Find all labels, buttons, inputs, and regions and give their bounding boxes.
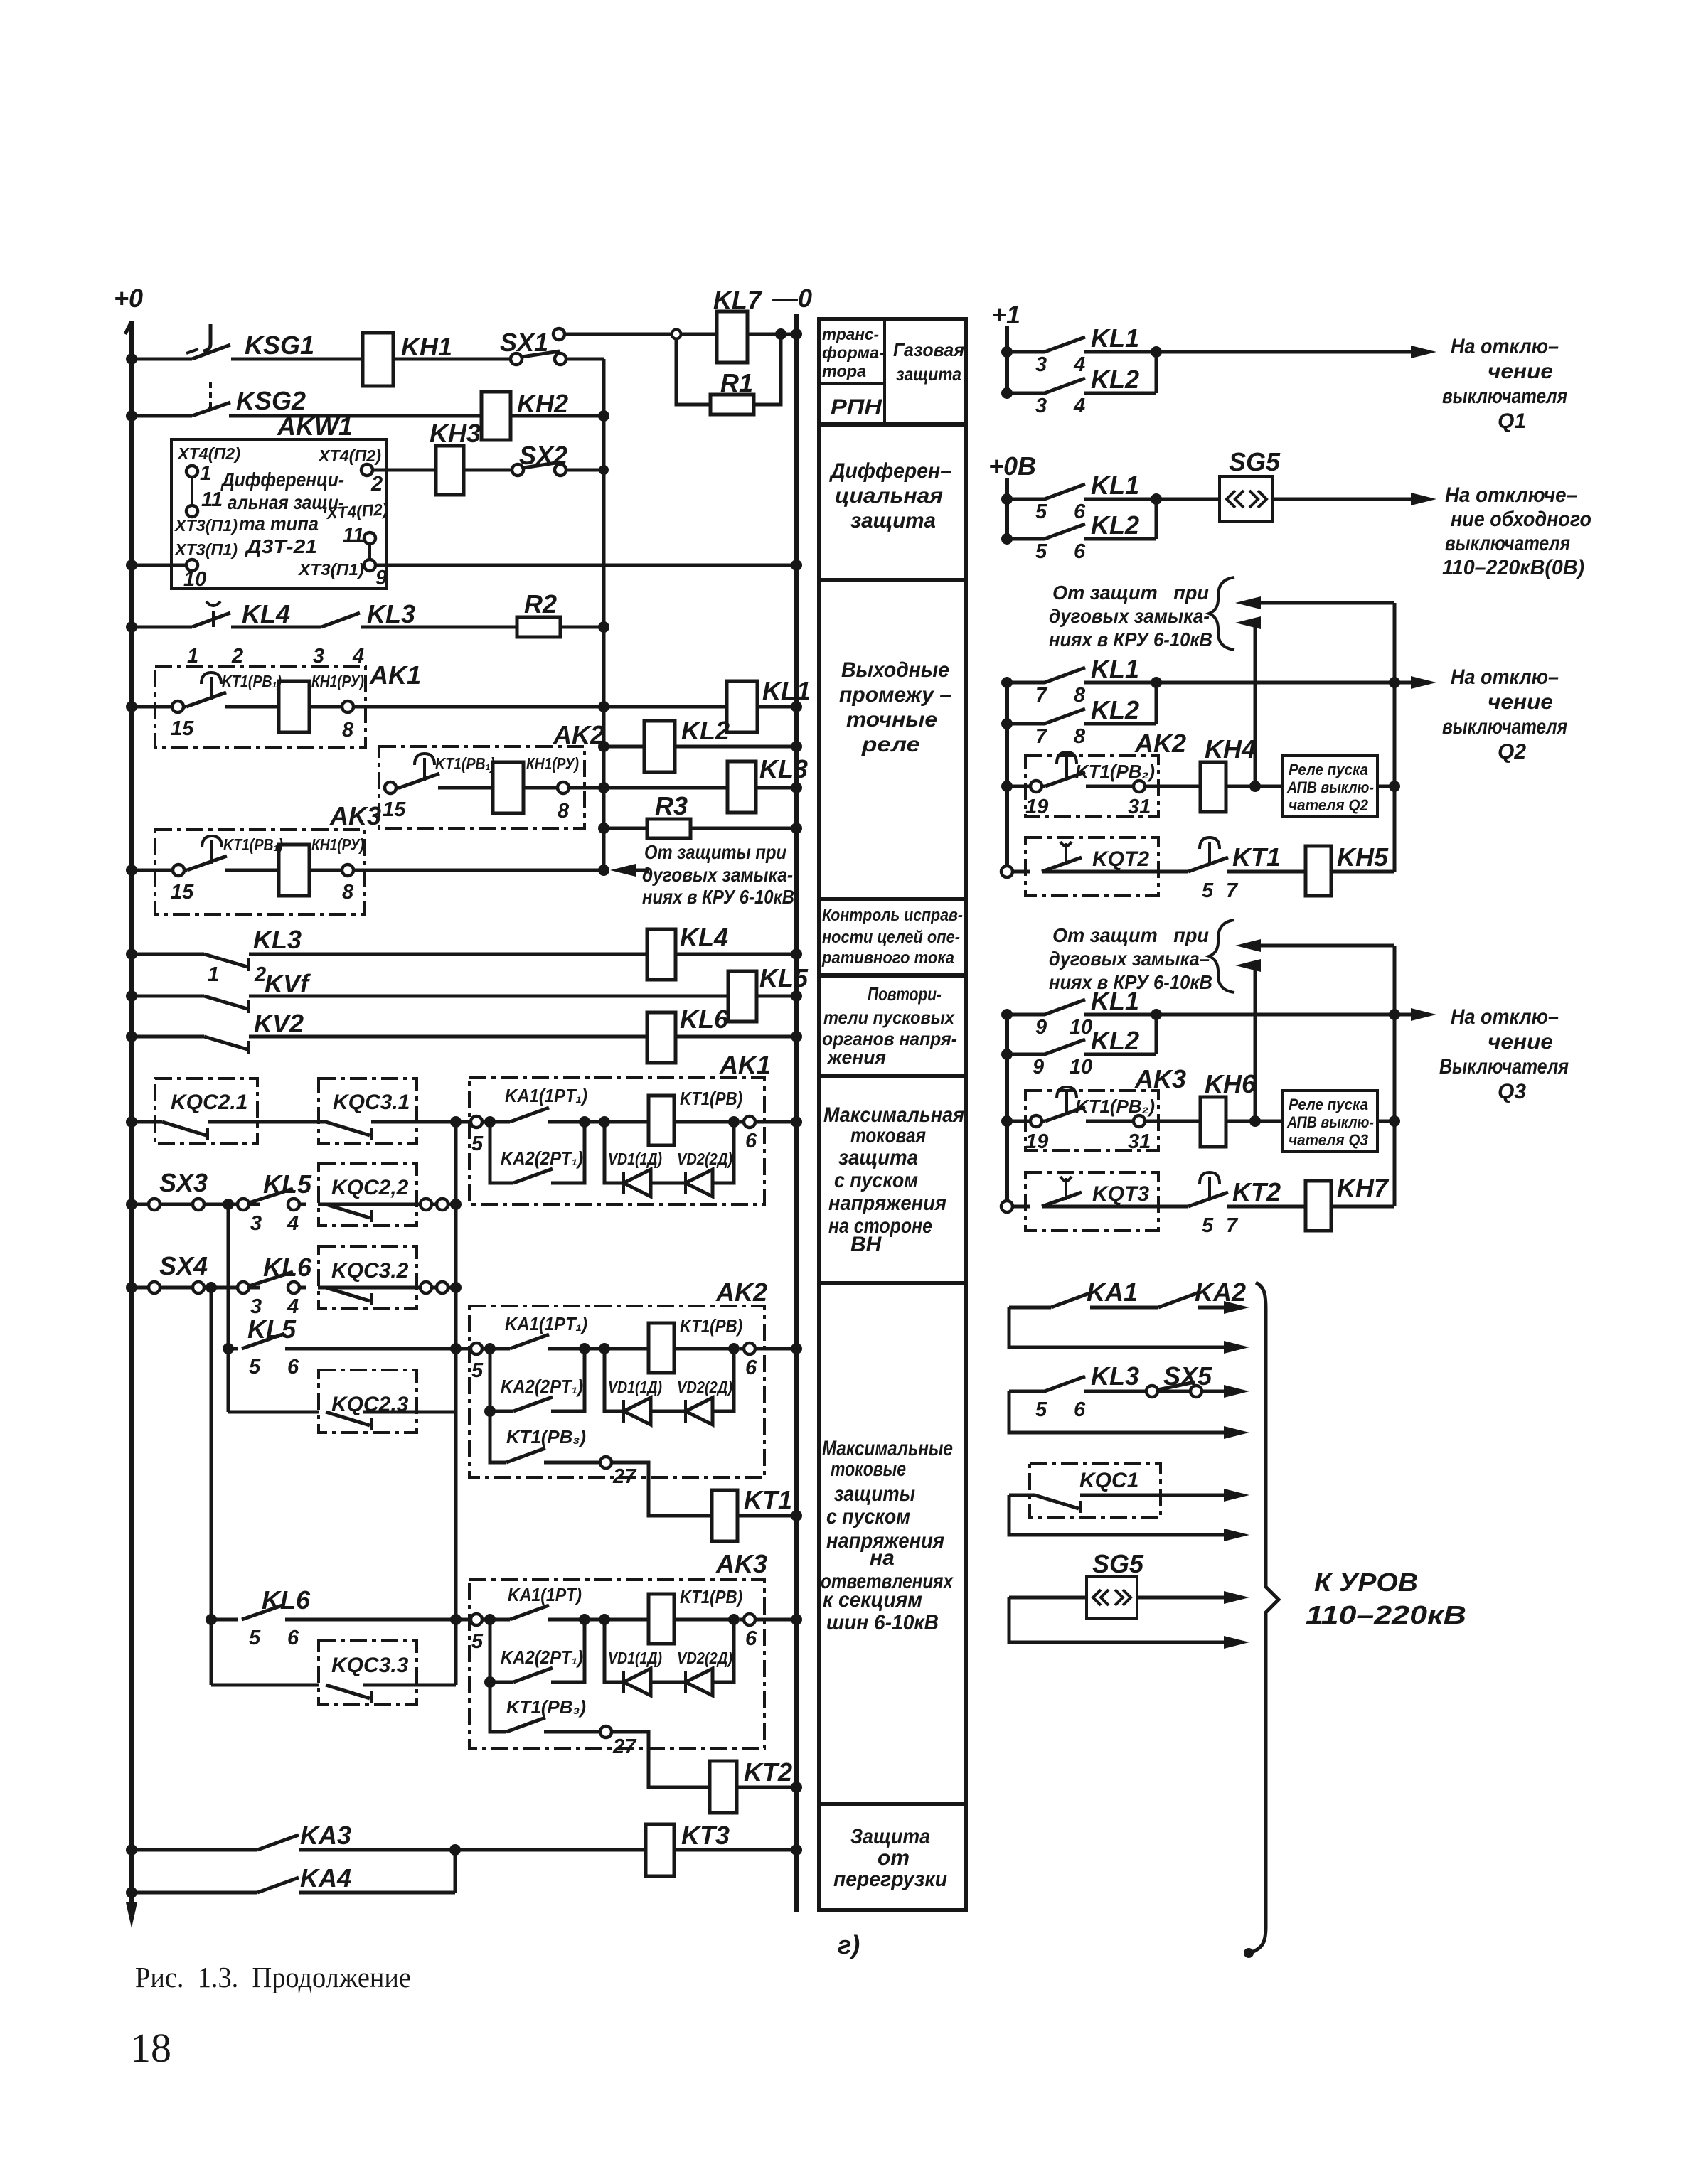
svg-text:VD1(1Д): VD1(1Д) bbox=[608, 1378, 662, 1396]
svg-text:ниях в КРУ 6-10кВ: ниях в КРУ 6-10кВ bbox=[1049, 628, 1212, 651]
wire AK3 MTZ out bbox=[755, 1618, 796, 1622]
svg-text:На отклю–: На отклю– bbox=[1451, 335, 1559, 358]
wire rung2 KSG2 y=585 bbox=[132, 414, 604, 418]
svg-text:защита: защита bbox=[838, 1146, 918, 1169]
svg-text:KT2: KT2 bbox=[744, 1757, 792, 1787]
pin 5 AK1 MTZ bbox=[471, 1116, 484, 1155]
svg-text:жения: жения bbox=[826, 1046, 886, 1068]
pin 11 right AKW1 bbox=[343, 524, 375, 547]
node junction AK3 rung/vertA end bbox=[598, 864, 609, 876]
svg-text:AK2: AK2 bbox=[1134, 729, 1186, 758]
node junction KT2/right bus bbox=[791, 1782, 802, 1793]
bracket UROV collector bbox=[1250, 1283, 1279, 1953]
svg-text:точные: точные bbox=[846, 708, 937, 732]
svg-text:АПВ выклю-: АПВ выклю- bbox=[1286, 1113, 1374, 1131]
svg-text:11: 11 bbox=[343, 524, 364, 547]
table row line 4 bbox=[819, 973, 966, 978]
wire KV1 rung y=1401 bbox=[132, 995, 796, 998]
svg-text:KH3: KH3 bbox=[430, 419, 481, 448]
node junction -0 bus top bbox=[791, 328, 802, 340]
svg-text:ниях в КРУ 6-10кВ: ниях в КРУ 6-10кВ bbox=[642, 886, 794, 908]
svg-text:реле: реле bbox=[861, 733, 920, 756]
pin 19 AK2 right bbox=[1025, 781, 1048, 818]
svg-text:1: 1 bbox=[187, 645, 198, 668]
svg-text:Дифферен–: Дифферен– bbox=[828, 459, 951, 483]
svg-text:KT1(PB): KT1(PB) bbox=[680, 1088, 742, 1109]
node junction diode branch split bbox=[599, 1116, 610, 1128]
node junction Q2 KL2/bus bbox=[1001, 718, 1013, 729]
diode VD2(2D) AK3 bbox=[686, 1669, 713, 1696]
svg-text:8: 8 bbox=[342, 719, 354, 742]
node junction KH4 out/vert inner bbox=[1249, 781, 1261, 792]
label cell kontrol bbox=[821, 906, 963, 968]
contact KL4 bbox=[192, 601, 230, 627]
svg-text:KT1(PB): KT1(PB) bbox=[680, 1315, 742, 1337]
pin 6 AK1 MTZ bbox=[740, 1116, 757, 1152]
svg-text:5: 5 bbox=[471, 1133, 484, 1155]
wire AK2 right rung y=1106 bbox=[1007, 785, 1394, 788]
node junction SX3 row/vertB bbox=[450, 1199, 462, 1210]
relay coil KT1(PB) AK3 bbox=[649, 1594, 674, 1644]
svg-text:110–220кВ: 110–220кВ bbox=[1306, 1600, 1466, 1629]
svg-text:5: 5 bbox=[1202, 1214, 1214, 1237]
svg-text:KL3: KL3 bbox=[367, 599, 415, 628]
wire AK1 MTZ out bbox=[755, 1120, 796, 1124]
device AK3 MTZ box bbox=[469, 1580, 764, 1748]
wire KL6 5-6 rung y=2278 bbox=[211, 1618, 506, 1622]
wire AK3 rung y=1224 bbox=[132, 869, 604, 872]
svg-text:На отклю–: На отклю– bbox=[1451, 665, 1559, 689]
node junction SX3/left bus bbox=[126, 1199, 137, 1210]
svg-text:KH2: KH2 bbox=[517, 389, 568, 418]
contact KL3 3-4 bbox=[321, 613, 360, 627]
svg-text:SX4: SX4 bbox=[159, 1251, 208, 1280]
relay coil KH3 bbox=[436, 446, 464, 495]
wire vert right inner Q2 x=1765 bbox=[1254, 623, 1257, 786]
svg-text:На отключе–: На отключе– bbox=[1445, 483, 1577, 507]
plug SX4 bbox=[149, 1282, 204, 1293]
svg-text:6: 6 bbox=[287, 1627, 299, 1649]
svg-text:ние обходного: ние обходного bbox=[1451, 508, 1591, 531]
node junction AK1 rung/left bus bbox=[126, 701, 137, 712]
svg-text:KQC3.2: KQC3.2 bbox=[331, 1259, 409, 1283]
relay coil KH1(RU) inside AK2 bbox=[493, 762, 523, 813]
svg-text:KA1(1PT₁): KA1(1PT₁) bbox=[505, 1313, 587, 1334]
svg-text:ративного тока: ративного тока bbox=[821, 948, 954, 968]
contact KT1(PB2) Q2 time contact bbox=[1045, 752, 1085, 786]
device AKW1 box bbox=[171, 439, 387, 589]
contact KT1(PB1) AK3 time contact bbox=[187, 836, 227, 870]
arrow Q3 trip output bbox=[1411, 1008, 1436, 1021]
device KQT2 box bbox=[1025, 837, 1158, 896]
svg-text:на: на bbox=[870, 1546, 895, 1570]
pin 27 AK2 bbox=[600, 1457, 637, 1488]
node junction KA3/left bus bbox=[126, 1844, 137, 1856]
wire Q3 KL2 rung y=1483 bbox=[1007, 1015, 1156, 1054]
svg-text:5: 5 bbox=[249, 1356, 261, 1379]
svg-text:Q2: Q2 bbox=[1498, 740, 1526, 764]
pin 15 AK3 bbox=[171, 864, 194, 904]
svg-text:+0B: +0B bbox=[988, 451, 1036, 481]
contact KA2(2PT1) AK2 bbox=[513, 1397, 553, 1411]
svg-text:дуговых замыка–: дуговых замыка– bbox=[1049, 948, 1210, 970]
arrow UROV 3 bbox=[1224, 1385, 1249, 1398]
svg-text:Контроль исправ-: Контроль исправ- bbox=[822, 906, 963, 925]
svg-text:Реле пуска: Реле пуска bbox=[1289, 1096, 1368, 1113]
arrow Q2 trip output bbox=[1411, 676, 1436, 689]
label cell differentsialnaya bbox=[828, 459, 951, 532]
wire Q1B KL2 rung y=758 bbox=[1007, 499, 1156, 539]
svg-text:KT1(PB₂): KT1(PB₂) bbox=[1075, 1096, 1155, 1117]
wire UROV loop 1 bbox=[1009, 1307, 1237, 1347]
wire KA4 rung y=2662 bbox=[132, 1850, 455, 1893]
wire UROV loop 2 bbox=[1009, 1391, 1237, 1433]
svg-text:+1: +1 bbox=[991, 300, 1020, 329]
svg-text:KH5: KH5 bbox=[1337, 842, 1389, 872]
svg-text:ности целей опе-: ности целей опе- bbox=[822, 928, 960, 947]
diode VD2(2D) AK1 bbox=[686, 1169, 713, 1197]
arrow UROV 5 bbox=[1224, 1489, 1249, 1501]
relay coil KT3 bbox=[646, 1824, 674, 1876]
pin 15 AK2 bbox=[383, 782, 406, 821]
arrow UROV 8 bbox=[1224, 1636, 1249, 1649]
node junction Q3 KL1/KL2 bbox=[1151, 1009, 1162, 1020]
table row line 2 bbox=[819, 578, 966, 582]
table row line 6 bbox=[819, 1281, 966, 1285]
arrow UROV 7 bbox=[1224, 1591, 1249, 1604]
svg-text:R2: R2 bbox=[524, 589, 557, 619]
pin 6 AK3 MTZ bbox=[740, 1614, 757, 1650]
symbol SG5 arrows bbox=[1227, 491, 1266, 508]
wire AKW1 row y=795 bbox=[132, 564, 796, 567]
arrow arc A lower bbox=[1235, 616, 1261, 629]
contact KL2 7-8 bbox=[1045, 709, 1085, 724]
svg-text:От защиты при: От защиты при bbox=[644, 841, 786, 863]
svg-text:KL4: KL4 bbox=[242, 599, 290, 628]
arrow UROV 2 bbox=[1224, 1341, 1249, 1354]
contact KT1(PB3) AK3 bbox=[490, 1682, 600, 1732]
node junction Q1 KL1/KL2 bbox=[1151, 346, 1162, 358]
svg-text:5: 5 bbox=[471, 1630, 484, 1653]
node junction KL2/right bus bbox=[791, 741, 802, 752]
diode VD1(1D) AK2 bbox=[624, 1398, 651, 1425]
node junction SX4/left bus bbox=[126, 1282, 137, 1293]
svg-text:От защит при: От защит при bbox=[1052, 924, 1209, 946]
pin 19 AK3 right bbox=[1025, 1115, 1048, 1153]
svg-text:KL2: KL2 bbox=[1091, 1026, 1139, 1055]
svg-text:AKW1: AKW1 bbox=[277, 412, 353, 441]
svg-text:—0: —0 bbox=[772, 284, 812, 313]
svg-text:SG5: SG5 bbox=[1229, 447, 1281, 476]
pin 15 AK1 bbox=[171, 701, 194, 740]
svg-text:КН1(РУ): КН1(РУ) bbox=[311, 835, 364, 854]
wire KA2 branch AK3 bbox=[490, 1620, 585, 1682]
svg-text:Q3: Q3 bbox=[1498, 1080, 1526, 1103]
svg-text:6: 6 bbox=[745, 1627, 757, 1650]
wire Q2 KL2 rung y=1018 bbox=[1007, 682, 1156, 724]
wire KT1 coil link AK2 bbox=[585, 1347, 649, 1351]
arrow arc B lower bbox=[1235, 959, 1261, 972]
table row line 7 bbox=[819, 1802, 966, 1806]
svg-text:KL5: KL5 bbox=[263, 1169, 312, 1199]
contact KQT2 bbox=[1042, 842, 1082, 872]
svg-text:Дифференци-: Дифференци- bbox=[220, 469, 344, 491]
contact KA1(1PT) AK3 bbox=[490, 1605, 585, 1620]
svg-text:Газовая: Газовая bbox=[893, 339, 964, 360]
svg-text:форма-: форма- bbox=[822, 343, 885, 362]
pin 9 AKW1 bbox=[364, 560, 387, 589]
arrow Q1B trip output bbox=[1411, 493, 1436, 505]
node junction SX3/vertC bbox=[223, 1199, 234, 1210]
svg-text:чателя Q2: чателя Q2 bbox=[1289, 796, 1369, 814]
plug SX5 bbox=[1146, 1386, 1202, 1397]
contact KL5 5-6 bbox=[242, 1334, 284, 1349]
device APV relay box Q2 bbox=[1283, 756, 1377, 817]
svg-text:1: 1 bbox=[200, 462, 211, 485]
contact KL6 3-4 bbox=[238, 1272, 299, 1293]
svg-text:чение: чение bbox=[1488, 360, 1553, 383]
wire +0B bus bbox=[1005, 478, 1009, 544]
svg-text:R1: R1 bbox=[720, 368, 753, 397]
svg-text:РПН: РПН bbox=[831, 395, 883, 419]
contact KA4 bbox=[257, 1878, 299, 1893]
relay coil KH1(RU) inside AK3 bbox=[279, 845, 309, 896]
wire KQC row y=1578 bbox=[132, 1120, 505, 1124]
svg-text:XT4(П2): XT4(П2) bbox=[317, 446, 381, 465]
pin 31 AK3 right bbox=[1128, 1115, 1151, 1153]
wire vertical C x=321 bbox=[227, 1204, 230, 1412]
svg-text:KA2: KA2 bbox=[1195, 1278, 1246, 1307]
node junction KV1/left bus bbox=[126, 990, 137, 1002]
node junction diode join AK3 bbox=[728, 1614, 740, 1625]
node junction Q1 KL1/bus bbox=[1001, 346, 1013, 358]
diode VD2(2D) AK2 bbox=[686, 1398, 713, 1425]
node junction KL3/right bus bbox=[791, 782, 802, 793]
device AK2 MTZ box bbox=[469, 1306, 764, 1477]
svg-text:KQC1: KQC1 bbox=[1079, 1469, 1138, 1492]
svg-text:от: от bbox=[878, 1846, 910, 1870]
svg-text:7: 7 bbox=[1035, 725, 1048, 748]
wire KV2 rung y=1458 bbox=[132, 1035, 796, 1039]
svg-text:9: 9 bbox=[1035, 1016, 1047, 1039]
svg-text:3: 3 bbox=[1035, 353, 1047, 376]
node junction Q1B KL2/bus bbox=[1001, 533, 1013, 545]
svg-text:VD2(2Д): VD2(2Д) bbox=[677, 1150, 732, 1168]
svg-text:К УРОВ: К УРОВ bbox=[1314, 1568, 1418, 1597]
wire Q2 bus segment bbox=[1005, 679, 1009, 872]
wire UROV loop 3 bbox=[1009, 1495, 1237, 1535]
node junction AK1 KA1/KA2 split bbox=[484, 1116, 496, 1128]
node junction KA1/KA2 join AK2 bbox=[579, 1343, 590, 1354]
node junction diode split AK3 bbox=[599, 1614, 610, 1625]
device KQC2.1 box bbox=[155, 1078, 257, 1144]
device APV relay box Q3 bbox=[1283, 1091, 1377, 1152]
node junction KT1/right bus bbox=[791, 1510, 802, 1521]
svg-text:KA1(1PT₁): KA1(1PT₁) bbox=[505, 1085, 587, 1106]
table header divider horizontal left bbox=[819, 382, 885, 385]
contact KT1(PB1) AK1 time contact bbox=[186, 673, 226, 707]
pin 8 AK3 bbox=[342, 864, 354, 904]
svg-text:Выходные: Выходные bbox=[841, 658, 949, 682]
svg-text:KA3: KA3 bbox=[300, 1821, 351, 1850]
device KQC2.2 box bbox=[319, 1163, 417, 1226]
node junction AK1 MTZ/right bus bbox=[791, 1116, 802, 1128]
node junction Q3 output/vert bbox=[1389, 1009, 1400, 1020]
diode VD1(1D) AK3 bbox=[624, 1669, 651, 1696]
svg-text:SX1: SX1 bbox=[500, 328, 548, 357]
label cell zashchita ot peregruzki bbox=[833, 1825, 947, 1891]
svg-text:КН1(РУ): КН1(РУ) bbox=[526, 754, 579, 773]
wire KT1 coil out AK2 bbox=[674, 1347, 734, 1351]
svg-text:KL1: KL1 bbox=[1091, 654, 1139, 683]
svg-text:KT1(PB₁): KT1(PB₁) bbox=[223, 835, 283, 854]
wire KT1 coil out bbox=[674, 1120, 734, 1124]
relay coil KL5 bbox=[728, 971, 757, 1022]
node junction KQC row/vertB bbox=[450, 1116, 462, 1128]
svg-text:KL4: KL4 bbox=[680, 923, 728, 952]
svg-text:KH7: KH7 bbox=[1337, 1173, 1390, 1202]
contact KQC3.2 bbox=[326, 1288, 371, 1305]
node junction diode join AK2 bbox=[728, 1343, 740, 1354]
contact KQC2.2 bbox=[326, 1204, 371, 1222]
relay coil KT1(PB) AK1 bbox=[649, 1096, 674, 1145]
arrow from arc protection into AK3 rung bbox=[610, 864, 649, 877]
contact KT2 5-7 time bbox=[1188, 1172, 1228, 1206]
contact KL3 1-2 break bbox=[204, 954, 249, 971]
svg-text:9: 9 bbox=[375, 567, 387, 589]
svg-text:KL1: KL1 bbox=[1091, 323, 1139, 353]
svg-text:От защит при: От защит при bbox=[1052, 582, 1209, 604]
svg-text:3: 3 bbox=[1035, 395, 1047, 417]
contact KL5 3-4 bbox=[238, 1189, 299, 1210]
contact KQC3.3 bbox=[326, 1685, 417, 1703]
svg-text:15: 15 bbox=[171, 717, 194, 740]
svg-text:XT3(П1): XT3(П1) bbox=[174, 516, 238, 535]
wire AK2 MTZ out bbox=[755, 1347, 796, 1351]
svg-text:5: 5 bbox=[1035, 500, 1047, 523]
node junction AKW1 row/left bus bbox=[126, 560, 137, 571]
svg-text:АПВ выклю-: АПВ выклю- bbox=[1286, 778, 1374, 796]
svg-text:19: 19 bbox=[1025, 796, 1048, 818]
pin 8 AK1 bbox=[342, 701, 354, 742]
label cell MTZ VN bbox=[823, 1103, 964, 1256]
svg-text:защита: защита bbox=[896, 363, 961, 385]
device KQT3 box bbox=[1025, 1172, 1158, 1231]
contact KT1 5-7 time bbox=[1188, 837, 1228, 872]
node junction KL6 5-6/vertB bbox=[450, 1614, 462, 1625]
symbol SG5 UROV arrows bbox=[1093, 1590, 1131, 1605]
svg-text:к секциям: к секциям bbox=[823, 1588, 922, 1612]
svg-text:На отклю–: На отклю– bbox=[1451, 1005, 1559, 1029]
svg-text:3: 3 bbox=[313, 645, 324, 668]
svg-text:AK1: AK1 bbox=[719, 1050, 771, 1079]
svg-text:6: 6 bbox=[1074, 1398, 1086, 1421]
svg-text:KA2(2PT₁): KA2(2PT₁) bbox=[501, 1376, 583, 1397]
wire KT2 coil feed bbox=[612, 1732, 710, 1787]
svg-text:8: 8 bbox=[1074, 725, 1086, 748]
contact KQC2.1 bbox=[162, 1122, 208, 1140]
device AK2 right box bbox=[1025, 756, 1158, 817]
svg-text:чение: чение bbox=[1488, 690, 1553, 714]
svg-text:1: 1 bbox=[208, 963, 219, 986]
svg-text:2: 2 bbox=[231, 645, 243, 668]
table function column frame bbox=[819, 319, 966, 1910]
device AK3 output relay box bbox=[155, 830, 365, 914]
svg-text:27: 27 bbox=[612, 1465, 637, 1488]
svg-text:KL1: KL1 bbox=[1091, 471, 1139, 500]
wire SX3 row y=1694 bbox=[132, 1203, 456, 1206]
svg-text:KH6: KH6 bbox=[1205, 1069, 1257, 1098]
svg-text:защита: защита bbox=[850, 509, 936, 532]
plug link SX1 bbox=[511, 351, 566, 365]
node junction KL5 5-6/vertB bbox=[450, 1343, 462, 1354]
device AK2 output relay box bbox=[379, 746, 585, 828]
svg-text:чение: чение bbox=[1488, 1030, 1553, 1054]
svg-text:KT3: KT3 bbox=[681, 1821, 730, 1850]
node junction KL3 1-2/left bus bbox=[126, 948, 137, 960]
table row line 3 bbox=[819, 897, 966, 901]
svg-text:транс-: транс- bbox=[822, 325, 879, 343]
node junction KA1/KA2 join AK3 bbox=[579, 1614, 590, 1625]
wire SG5 rung y=2247 bbox=[1009, 1596, 1237, 1600]
node junction R3/right bus bbox=[791, 823, 802, 834]
svg-text:тора: тора bbox=[822, 362, 866, 380]
svg-text:6: 6 bbox=[1074, 500, 1086, 523]
svg-text:KL7: KL7 bbox=[713, 285, 763, 314]
node junction KV2/left bus bbox=[126, 1031, 137, 1042]
wire KT1 coil link bbox=[585, 1120, 649, 1124]
node junction Q2 KL1/KL2 bbox=[1151, 677, 1162, 688]
svg-text:27: 27 bbox=[612, 1735, 637, 1758]
svg-text:6: 6 bbox=[1074, 540, 1086, 563]
pin 8 AK2 bbox=[558, 782, 570, 823]
svg-text:15: 15 bbox=[383, 798, 406, 821]
svg-text:KQC2.1: KQC2.1 bbox=[171, 1091, 247, 1114]
svg-text:KL5: KL5 bbox=[759, 963, 809, 992]
wire KL2 row y=1050 bbox=[604, 745, 796, 749]
svg-text:KL6: KL6 bbox=[680, 1005, 729, 1034]
wire KL3/SX5 rung y=1957 bbox=[1009, 1390, 1237, 1393]
wire rung3 diff trip y=661 bbox=[373, 469, 604, 472]
svg-text:KL3: KL3 bbox=[1091, 1361, 1139, 1391]
svg-text:4: 4 bbox=[352, 645, 364, 668]
wire KA1/KA2 UROV rung y=1839 bbox=[1009, 1306, 1237, 1310]
svg-text:KH4: KH4 bbox=[1205, 734, 1256, 764]
svg-text:KT1(PB): KT1(PB) bbox=[680, 1586, 742, 1607]
pin 1 AKW1 bbox=[186, 462, 211, 485]
arrow arc A upper bbox=[1235, 596, 1394, 609]
svg-text:19: 19 bbox=[1025, 1130, 1048, 1153]
svg-text:7: 7 bbox=[1226, 879, 1239, 902]
svg-text:KH1: KH1 bbox=[401, 332, 452, 361]
resistor R2 bbox=[517, 617, 560, 637]
relay coil KL4 bbox=[647, 929, 676, 980]
contact KT1(PB3) AK2 bbox=[490, 1411, 600, 1462]
svg-text:KL2: KL2 bbox=[681, 716, 730, 745]
wire diode branch AK3 bbox=[604, 1620, 734, 1682]
node junction Q1B KL1/KL2 bbox=[1151, 493, 1162, 505]
svg-text:г): г) bbox=[838, 1930, 860, 1959]
pin 27 AK3 bbox=[600, 1726, 637, 1758]
contact KQC2.3 bbox=[326, 1412, 417, 1430]
relay coil KH1 bbox=[363, 333, 393, 386]
svg-text:11: 11 bbox=[201, 488, 223, 511]
svg-text:4: 4 bbox=[1073, 395, 1085, 417]
contact KL1 9-10 bbox=[1045, 1000, 1085, 1015]
svg-text:6: 6 bbox=[745, 1130, 757, 1152]
node junction AK2 right/bus bbox=[1001, 781, 1013, 792]
relay coil KH1(RU) inside AK1 bbox=[279, 681, 309, 732]
